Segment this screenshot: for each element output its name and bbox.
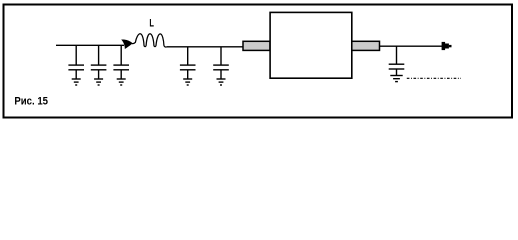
ground <box>94 70 103 85</box>
capacitor C1 <box>68 45 84 70</box>
ground <box>183 70 192 85</box>
wire input bus <box>56 44 124 46</box>
svg-text:L: L <box>149 18 154 30</box>
arrow into inductor <box>121 40 132 49</box>
wire from inductor to block <box>167 46 243 48</box>
module U1 (filter block) <box>270 12 352 78</box>
inductor L <box>132 34 167 47</box>
capacitor C6 <box>389 46 405 69</box>
arrow output (stepped head) <box>442 42 452 50</box>
pin right lead of module <box>352 41 380 50</box>
capacitor C2 <box>91 45 107 70</box>
capacitor C4 <box>180 47 196 70</box>
capacitor C3 <box>113 45 129 70</box>
dotted continuation line <box>407 77 461 79</box>
ground <box>217 70 226 85</box>
svg-text:Рис. 15: Рис. 15 <box>14 95 48 107</box>
wire output <box>380 45 443 47</box>
capacitor C5 <box>213 47 229 70</box>
ground <box>117 70 126 85</box>
pin left lead of module <box>243 41 270 50</box>
ground <box>390 69 402 82</box>
ground <box>72 70 81 85</box>
